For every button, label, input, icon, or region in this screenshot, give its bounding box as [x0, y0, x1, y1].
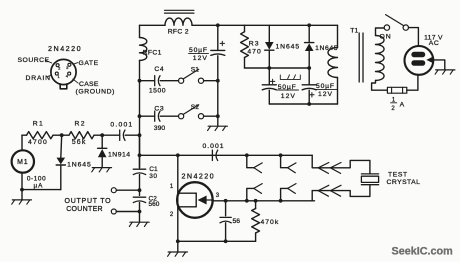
- svg-text:SOURCE: SOURCE: [18, 57, 50, 64]
- svg-text:560: 560: [149, 201, 160, 208]
- svg-text:R1: R1: [33, 121, 44, 128]
- svg-text:R2: R2: [75, 121, 86, 128]
- svg-text:A: A: [400, 102, 405, 109]
- svg-text:12V: 12V: [318, 91, 333, 98]
- svg-text:12V: 12V: [281, 93, 296, 100]
- svg-text:M1: M1: [17, 159, 28, 166]
- svg-text:1N645: 1N645: [276, 43, 301, 50]
- svg-text:C3: C3: [154, 106, 164, 113]
- svg-text:56k: 56k: [72, 139, 87, 146]
- svg-text:OUTPUT TO: OUTPUT TO: [65, 198, 112, 205]
- svg-text:12V: 12V: [193, 55, 208, 62]
- svg-text:S2: S2: [191, 104, 199, 111]
- svg-text:(GROUND): (GROUND): [76, 88, 116, 95]
- svg-text:CASE: CASE: [79, 81, 99, 88]
- svg-text:0.001: 0.001: [203, 143, 225, 150]
- svg-text:470: 470: [247, 49, 261, 56]
- svg-text:CRYSTAL: CRYSTAL: [387, 179, 421, 186]
- svg-text:2: 2: [58, 65, 61, 70]
- svg-text:AC: AC: [429, 40, 440, 47]
- svg-text:0.001: 0.001: [110, 121, 133, 128]
- svg-text:2N4220: 2N4220: [182, 171, 216, 180]
- svg-text:1N914: 1N914: [108, 151, 131, 158]
- svg-text:56: 56: [233, 218, 241, 225]
- svg-text:RFC 2: RFC 2: [168, 28, 189, 35]
- svg-text:1: 1: [57, 74, 60, 79]
- svg-text:50µF: 50µF: [316, 83, 335, 90]
- svg-text:470k: 470k: [261, 219, 280, 226]
- svg-text:R3: R3: [249, 41, 260, 48]
- svg-text:2: 2: [170, 212, 174, 218]
- svg-text:30: 30: [149, 173, 157, 180]
- svg-text:1N645: 1N645: [67, 162, 92, 169]
- svg-text:1: 1: [170, 184, 174, 190]
- svg-text:µA: µA: [34, 182, 44, 189]
- svg-text:4700: 4700: [28, 139, 48, 146]
- svg-text:ON: ON: [380, 33, 392, 40]
- svg-text:2: 2: [391, 106, 395, 112]
- svg-text:RFC1: RFC1: [143, 50, 162, 57]
- svg-text:COUNTER: COUNTER: [66, 206, 103, 213]
- svg-text:2N4220: 2N4220: [48, 44, 82, 53]
- svg-text:0-100: 0-100: [27, 175, 46, 182]
- svg-text:S1: S1: [191, 67, 199, 74]
- svg-text:T1: T1: [350, 27, 358, 34]
- svg-text:TEST: TEST: [388, 171, 408, 178]
- svg-text:1500: 1500: [149, 88, 166, 95]
- svg-text:390: 390: [154, 125, 166, 132]
- svg-text:DRAIN: DRAIN: [26, 75, 51, 82]
- svg-text:C4: C4: [154, 66, 164, 73]
- svg-text:SeekIC.com: SeekIC.com: [392, 246, 453, 258]
- svg-text:3: 3: [216, 193, 220, 199]
- svg-text:GATE: GATE: [79, 60, 99, 67]
